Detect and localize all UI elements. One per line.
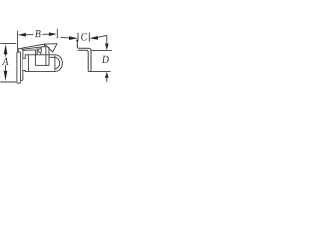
plunger wall <box>48 47 50 66</box>
dim D bottom extension line <box>88 70 111 72</box>
dim C right leader to D corner <box>98 35 107 43</box>
label B <box>35 30 41 37</box>
body cap seam <box>54 56 56 71</box>
lever pennant tip <box>45 44 57 52</box>
cap inner top line <box>49 56 55 58</box>
body outline with right cap <box>23 55 63 72</box>
dim C left ext line <box>77 33 79 42</box>
dim B right line <box>42 33 49 35</box>
dim C left leader <box>61 36 70 39</box>
latch pin line <box>45 46 47 65</box>
dim B right arrow <box>49 32 57 36</box>
bracket outer contour <box>77 46 91 71</box>
interior left wall <box>34 50 36 65</box>
housing top line <box>23 49 36 51</box>
flange back plate <box>18 49 23 81</box>
label D <box>102 56 109 63</box>
body left ring line <box>27 55 29 72</box>
dim B right extension line <box>56 29 58 39</box>
label C <box>81 33 87 40</box>
dim C right ext line <box>88 33 90 42</box>
flange front plate <box>17 52 21 83</box>
dim A down arrow <box>4 71 8 81</box>
dim C right arrow <box>90 36 98 40</box>
dim A up arrow <box>4 44 8 54</box>
label A <box>2 58 8 65</box>
pivot notch left wall <box>36 48 38 56</box>
dim C left arrow <box>69 36 78 40</box>
pivot notch right wall <box>40 48 42 56</box>
dim D top extension line <box>91 49 111 51</box>
dim A upper stem <box>5 54 7 57</box>
cap inner arc <box>55 57 60 69</box>
dim B left arrow <box>18 33 26 37</box>
dim A top extension line <box>0 43 16 45</box>
lever arm <box>22 44 45 49</box>
dim B left line <box>26 34 34 36</box>
bracket inner contour <box>78 50 89 71</box>
dim D top arrow <box>105 44 109 51</box>
pivot circle <box>38 49 42 53</box>
interior shelf line <box>35 64 49 66</box>
dim A bottom extension line <box>0 81 16 83</box>
dim B left extension line <box>17 31 19 52</box>
dim D bottom tail <box>106 78 108 83</box>
dim A lower stem <box>5 65 7 70</box>
dim D bottom arrow <box>105 72 109 78</box>
background <box>0 0 112 112</box>
bracket lip edge <box>76 40 77 47</box>
